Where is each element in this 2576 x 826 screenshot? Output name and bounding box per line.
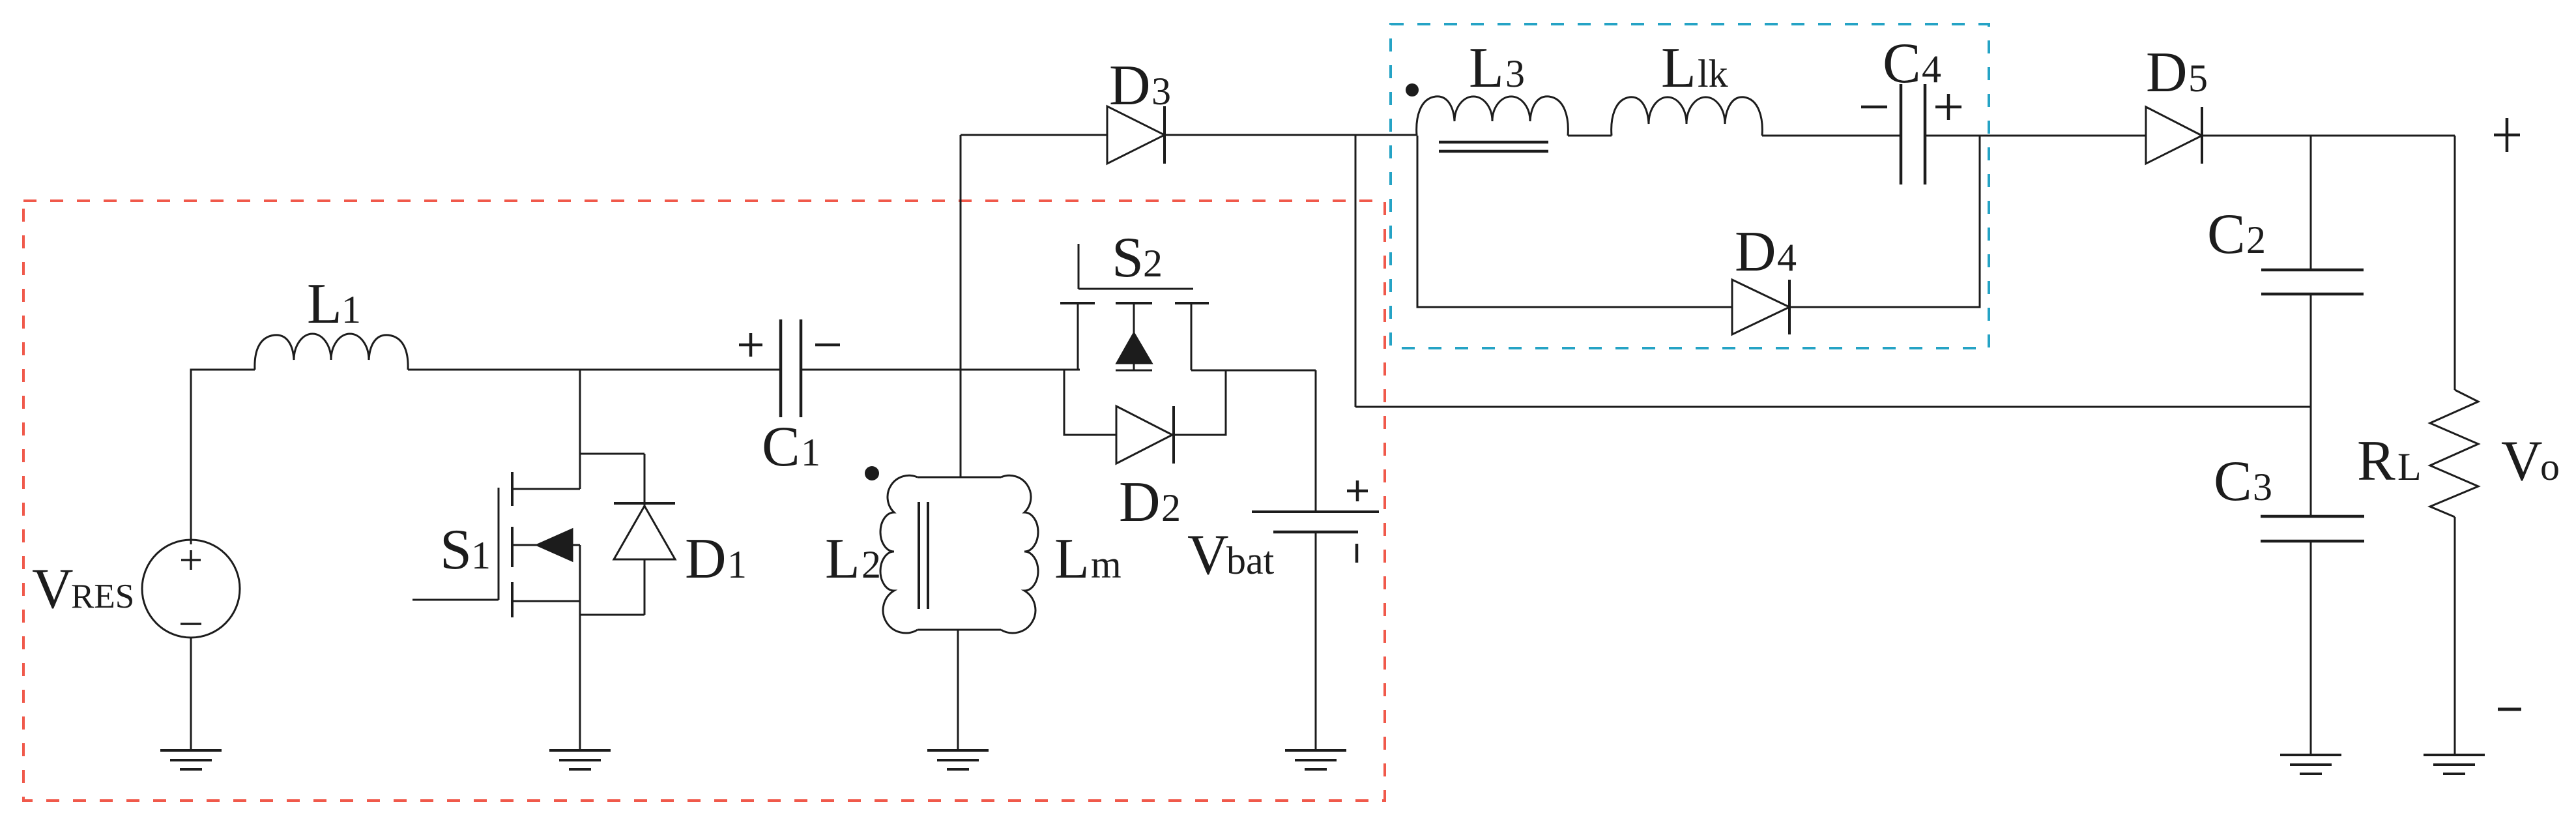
- L3 core lines: [1439, 142, 1548, 151]
- svg-text:L: L: [1661, 37, 1696, 100]
- diode D4: [1732, 280, 1789, 334]
- left winding L2: [880, 475, 918, 633]
- svg-text:4: 4: [1922, 48, 1941, 91]
- battery plus sign: [1347, 480, 1368, 501]
- S1 gate bar: [498, 488, 500, 600]
- ground under C3: [2280, 755, 2341, 774]
- S2 body stub with arrow: [1133, 303, 1135, 370]
- wire S1 source down: [579, 545, 581, 750]
- svg-text:D: D: [2146, 41, 2188, 104]
- svg-text:S: S: [440, 518, 472, 582]
- svg-text:L: L: [2397, 445, 2422, 488]
- wire S2 to battery: [1191, 370, 1316, 372]
- wire Llk to C4: [1762, 135, 1900, 137]
- svg-text:D: D: [1735, 220, 1776, 284]
- inductor L1: [255, 334, 408, 370]
- battery Vbat: [1252, 370, 1379, 750]
- S2 gate stub: [1078, 244, 1080, 289]
- wire C4 to D5: [1926, 135, 2146, 137]
- svg-text:3: 3: [1505, 52, 1525, 95]
- S1 drain lead: [512, 488, 580, 490]
- wire VRES bottom to ground: [190, 638, 192, 750]
- svg-text:1: 1: [801, 431, 820, 474]
- svg-text:D: D: [1119, 471, 1161, 534]
- ground under VRES: [160, 750, 222, 769]
- diode D5: [2146, 107, 2202, 164]
- wire C2 top: [2310, 136, 2312, 270]
- wire D3 to L3: [1165, 134, 1417, 136]
- svg-text:S: S: [1112, 226, 1144, 289]
- S2 right terminal: [1191, 303, 1193, 370]
- svg-text:o: o: [2540, 445, 2560, 488]
- wire D4 to C4 node: [1789, 136, 1980, 307]
- svg-text:RES: RES: [71, 578, 134, 615]
- wire C3 bottom: [2310, 541, 2312, 755]
- svg-text:2: 2: [1161, 486, 1181, 529]
- inductor L3: [1417, 96, 1569, 136]
- S1 body lead with arrow: [512, 544, 580, 546]
- svg-text:5: 5: [2188, 57, 2208, 100]
- winding dot L3: [1406, 83, 1419, 96]
- svg-text:3: 3: [1151, 70, 1171, 113]
- output plus sign: [2494, 118, 2520, 152]
- battery minus tick: [1355, 544, 1359, 563]
- svg-text:2: 2: [1143, 242, 1163, 285]
- svg-text:3: 3: [2253, 465, 2272, 509]
- wire D2 loop right: [1174, 370, 1226, 435]
- svg-text:V: V: [2501, 430, 2543, 493]
- S1 source lead: [512, 600, 580, 602]
- bottom cap: [918, 629, 1001, 631]
- source VRES: [142, 540, 240, 638]
- svg-text:1: 1: [727, 543, 747, 586]
- inductor Llk: [1612, 97, 1763, 136]
- S2 body bar on wire: [1116, 370, 1152, 372]
- core lines: [919, 502, 928, 609]
- wire D1 top branch: [580, 453, 644, 455]
- svg-text:1: 1: [471, 534, 491, 577]
- svg-text:bat: bat: [1226, 539, 1275, 582]
- diode D2: [1116, 406, 1174, 464]
- S2 channel bars: [1060, 302, 1209, 304]
- svg-text:C: C: [1883, 32, 1921, 95]
- resistor RL: [2430, 390, 2478, 517]
- diode D1: [614, 454, 675, 615]
- S1 channel bars: [511, 472, 514, 617]
- svg-text:V: V: [1187, 524, 1229, 587]
- svg-text:L: L: [1054, 527, 1090, 591]
- svg-text:V: V: [32, 557, 74, 621]
- svg-text:2: 2: [2246, 218, 2266, 261]
- red dashed box primary stage: [23, 201, 1385, 801]
- svg-text:L: L: [307, 273, 342, 336]
- svg-text:m: m: [1091, 543, 1122, 586]
- svg-text:D: D: [1109, 54, 1151, 117]
- output minus sign: [2498, 708, 2521, 711]
- wire snubber feed drop: [1355, 136, 1357, 407]
- wire S1 drain drop: [579, 370, 581, 489]
- ground under S1: [549, 750, 611, 769]
- wire D5 to output corner: [2202, 135, 2455, 137]
- wire long return to C2 C3 node: [1355, 406, 2311, 408]
- C1 minus sign: [815, 344, 840, 347]
- svg-text:C: C: [2214, 450, 2252, 513]
- svg-text:C: C: [762, 415, 800, 479]
- wire C2 to C3: [2310, 294, 2312, 516]
- capacitor C4: [1901, 84, 1925, 184]
- wire output right side down: [2454, 136, 2456, 390]
- ground under L2: [927, 750, 989, 769]
- S2 left terminal: [1077, 303, 1079, 370]
- VRES minus sign: [181, 623, 201, 625]
- wire L1 to C1: [408, 369, 779, 371]
- wire L3 down leg: [1417, 136, 1732, 307]
- C4 minus sign: [1861, 106, 1887, 109]
- S2 gate bar: [1078, 288, 1193, 290]
- right winding Lm: [1001, 475, 1038, 633]
- transformer L2 Lm: [865, 466, 1038, 633]
- S1 gate lead: [412, 599, 499, 601]
- ground under Vbat: [1285, 750, 1346, 769]
- svg-text:L: L: [825, 527, 860, 591]
- wire RL bottom: [2454, 517, 2456, 755]
- svg-text:L: L: [1469, 37, 1504, 100]
- C1 plus sign: [739, 333, 762, 357]
- svg-text:D: D: [685, 527, 727, 591]
- wire VRES top to L1: [191, 370, 255, 544]
- ground under RL: [2424, 755, 2485, 774]
- winding dot: [865, 466, 879, 480]
- wire L3 to Llk: [1568, 135, 1612, 137]
- VRES plus sign: [181, 550, 201, 570]
- svg-text:4: 4: [1777, 236, 1797, 279]
- capacitor C1: [781, 319, 801, 417]
- top cap: [918, 477, 1001, 479]
- capacitor C3: [2261, 516, 2364, 541]
- svg-text:C: C: [2207, 203, 2246, 266]
- transistor S2: [1060, 244, 1209, 370]
- svg-text:lk: lk: [1698, 52, 1728, 95]
- transistor S1: [412, 472, 580, 617]
- wire L2 bottom to ground: [957, 630, 959, 750]
- wire D1 bottom branch: [580, 614, 644, 616]
- svg-text:2: 2: [861, 543, 881, 586]
- diode D3: [1107, 106, 1165, 164]
- wire D3 riser and L2 top: [960, 135, 962, 477]
- svg-text:R: R: [2357, 430, 2395, 493]
- blue dashed box snubber cell: [1391, 24, 1989, 348]
- svg-text:1: 1: [341, 288, 361, 331]
- wire C1 to S2: [801, 369, 1080, 371]
- wire D2 loop left: [1064, 370, 1116, 435]
- C4 plus sign: [1935, 94, 1961, 120]
- capacitor C2: [2261, 270, 2364, 294]
- wire D3 input: [961, 134, 1107, 136]
